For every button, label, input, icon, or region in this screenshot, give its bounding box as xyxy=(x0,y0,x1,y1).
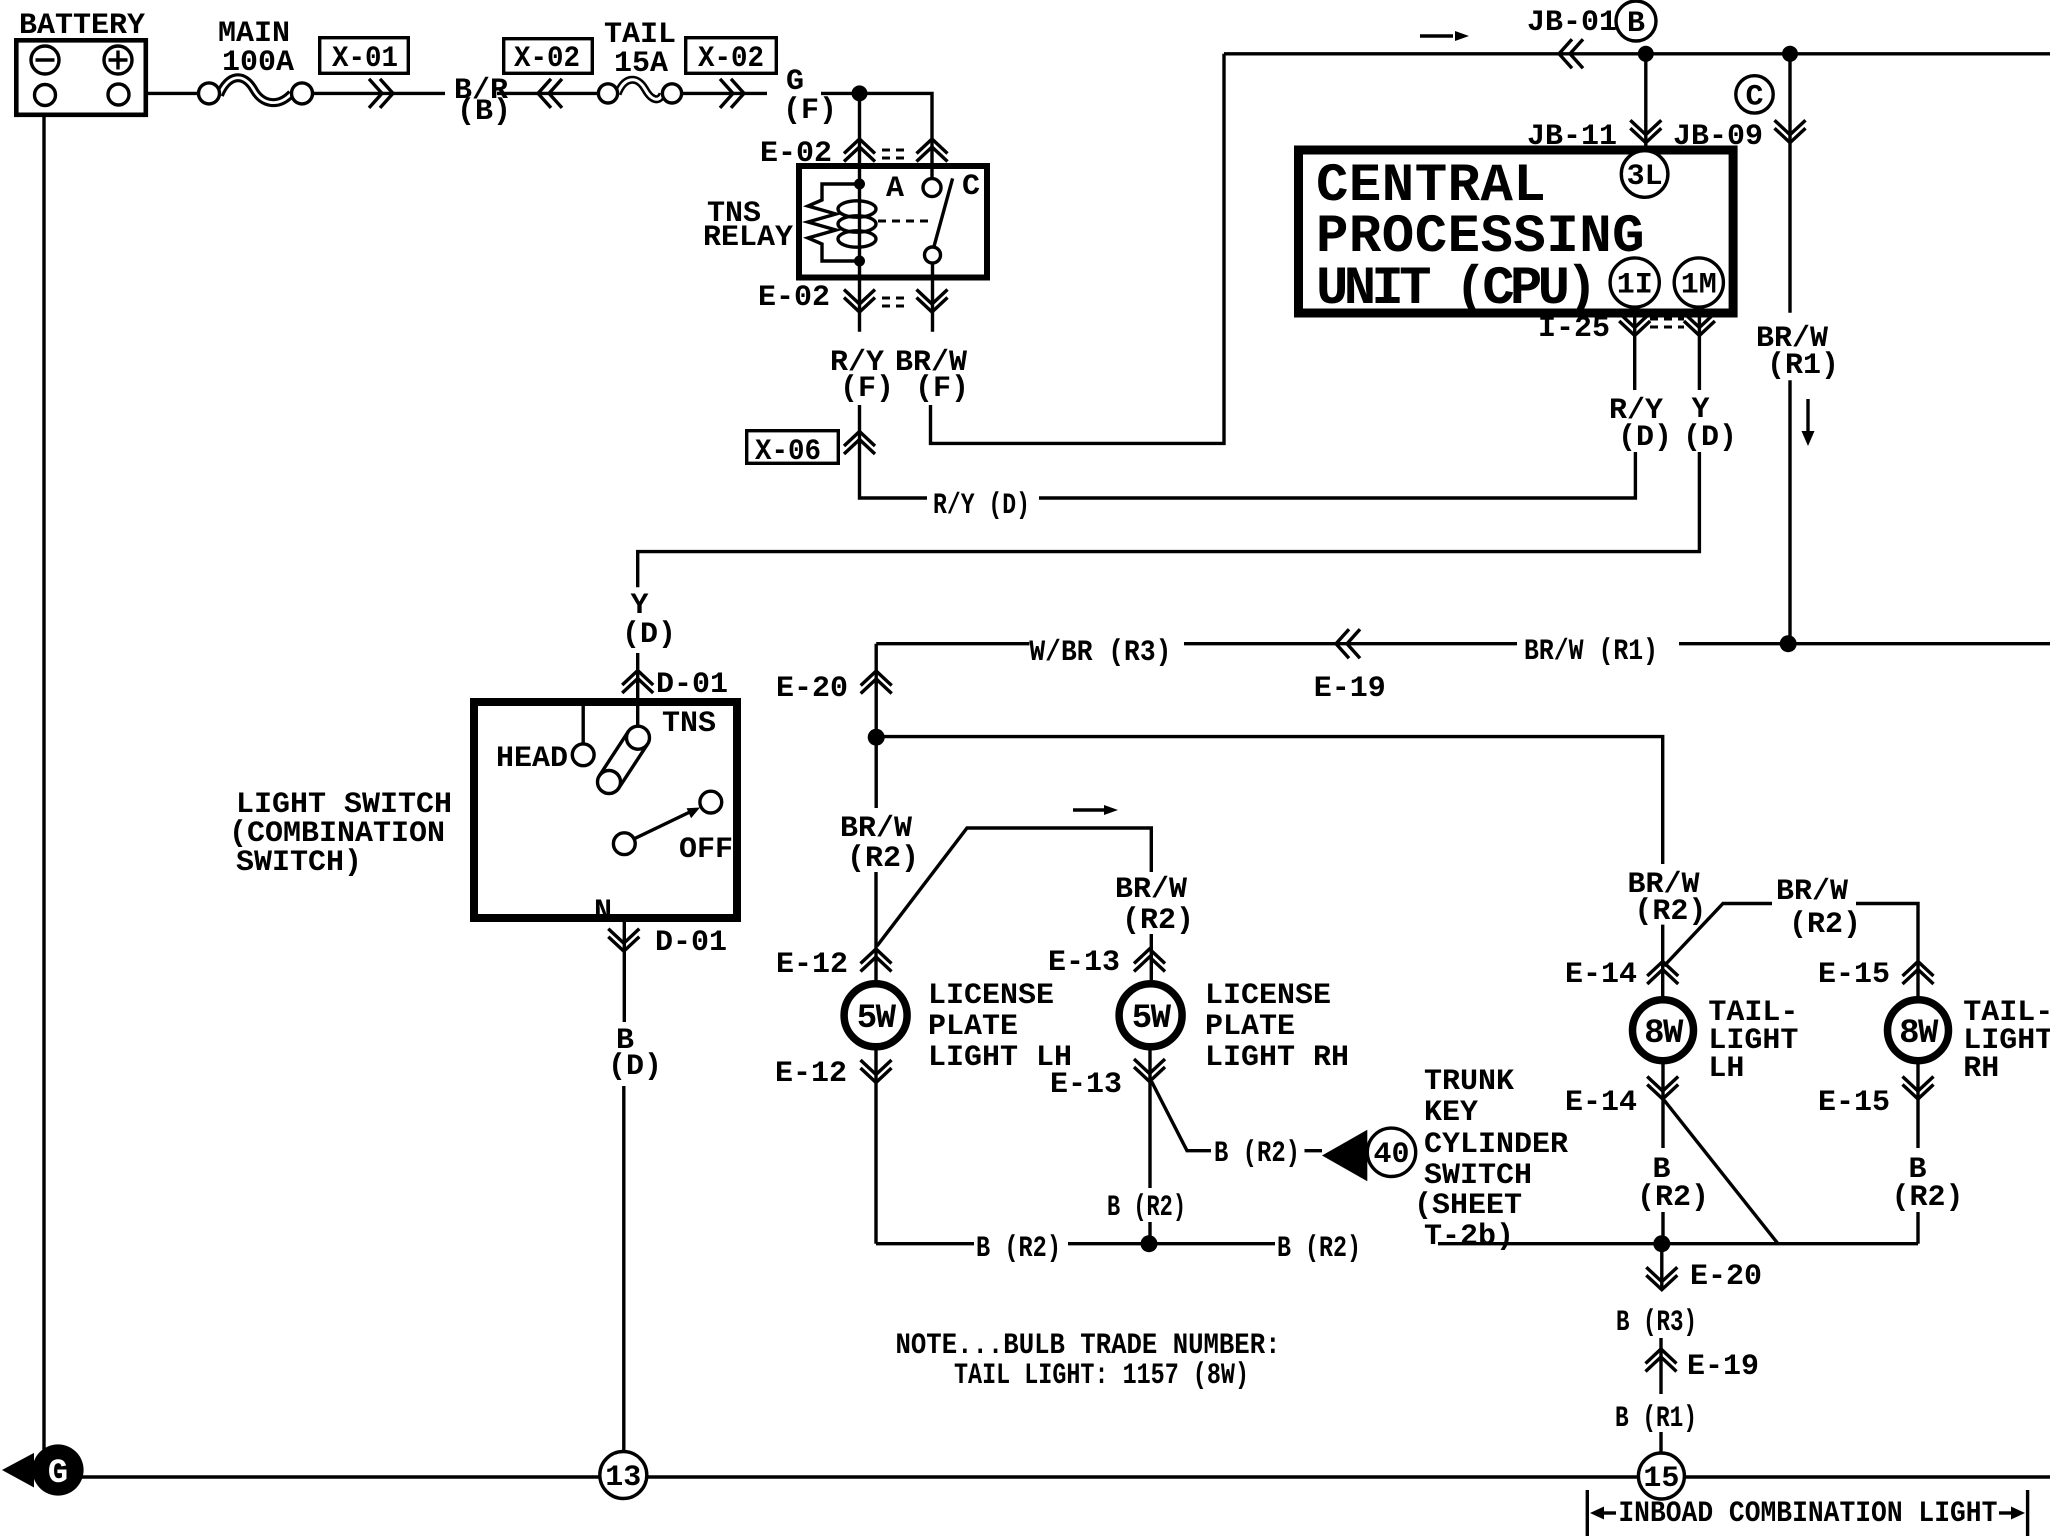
svg-text:LICENSE: LICENSE xyxy=(1205,979,1331,1013)
svg-text:RH: RH xyxy=(1963,1052,1999,1086)
svg-text:I-25: I-25 xyxy=(1538,312,1610,346)
svg-text:NOTE...BULB TRADE NUMBER:: NOTE...BULB TRADE NUMBER: xyxy=(896,1329,1281,1363)
svg-text:B (R3): B (R3) xyxy=(1616,1306,1697,1340)
battery xyxy=(16,40,146,115)
joint circle 40 xyxy=(1367,1128,1415,1176)
node relay coil bottom xyxy=(854,256,865,267)
svg-text:LICENSE: LICENSE xyxy=(928,979,1054,1013)
connector chevron X-06 xyxy=(844,432,875,455)
ground symbol G xyxy=(2,1444,84,1495)
svg-text:13: 13 xyxy=(605,1461,641,1495)
CPU pin 3L xyxy=(1621,151,1668,198)
wire battery B+ feed to TNS relay (B/R, G wire) xyxy=(129,93,932,179)
svg-text:E-12: E-12 xyxy=(775,1057,847,1091)
wire B (R2) ground bus xyxy=(876,1242,1918,1245)
connector chevron E-19 horizontal xyxy=(1336,629,1360,658)
svg-text:E-20: E-20 xyxy=(776,672,848,706)
svg-text:T-2b): T-2b) xyxy=(1424,1220,1514,1254)
svg-text:UNIT (CPU): UNIT (CPU) xyxy=(1316,259,1593,320)
joint circle B of JB-01 xyxy=(1616,1,1656,41)
node junction tail ground xyxy=(1653,1235,1670,1252)
relay switch blade xyxy=(934,178,953,246)
light switch HEAD terminal xyxy=(572,744,594,766)
relay contact lower terminal xyxy=(925,247,941,263)
svg-text:(D): (D) xyxy=(1683,421,1737,455)
svg-text:JB-11: JB-11 xyxy=(1527,120,1617,154)
relay coil xyxy=(838,201,876,247)
wire license plate light LH ground to B (R2) bus xyxy=(874,1050,877,1244)
svg-text:(R2): (R2) xyxy=(1122,904,1194,938)
svg-text:8W: 8W xyxy=(1644,1015,1684,1053)
svg-text:E-13: E-13 xyxy=(1050,1068,1122,1102)
svg-text:(B): (B) xyxy=(457,95,511,129)
node junction license feed xyxy=(868,729,885,746)
svg-text:B (R2): B (R2) xyxy=(976,1232,1061,1266)
connector chevron E-13 upper xyxy=(1134,949,1165,972)
svg-text:BR/W: BR/W xyxy=(1776,875,1848,909)
svg-text:B (R2): B (R2) xyxy=(1107,1191,1186,1225)
svg-text:X-01: X-01 xyxy=(332,42,398,76)
connector box X-02 (right) xyxy=(686,38,777,74)
wire light switch N pin B (D) down to joint 13 xyxy=(622,855,626,1452)
svg-text:BR/W (R1): BR/W (R1) xyxy=(1524,635,1658,669)
connector chevron E-20 lower xyxy=(1646,1267,1677,1290)
connector I-25 chevrons xyxy=(1619,313,1650,336)
svg-text:SWITCH: SWITCH xyxy=(1424,1159,1532,1193)
svg-text:E-15: E-15 xyxy=(1818,958,1890,992)
svg-text:R/Y (D): R/Y (D) xyxy=(933,489,1030,523)
wire lower BR/W (R1) / W/BR (R3) bus xyxy=(876,642,2050,645)
wire E-20 drop to license plate light LH xyxy=(874,644,878,981)
svg-text:(SHEET: (SHEET xyxy=(1414,1189,1522,1223)
svg-text:TRUNK: TRUNK xyxy=(1424,1065,1514,1099)
svg-text:E-19: E-19 xyxy=(1687,1350,1759,1384)
connector chevron E-19 vertical xyxy=(1646,1349,1677,1372)
svg-text:(R2): (R2) xyxy=(1789,908,1861,942)
lamp tail-light RH 8W xyxy=(1888,1000,1949,1061)
svg-text:D-01: D-01 xyxy=(656,668,728,702)
svg-text:(R1): (R1) xyxy=(1767,349,1839,383)
svg-text:RELAY: RELAY xyxy=(703,221,793,255)
connector chevron X-01 xyxy=(369,79,393,108)
node junction JB-11 tap xyxy=(1638,46,1654,62)
wire diagonal tail-light ground link xyxy=(1664,1100,1778,1244)
svg-text:(D): (D) xyxy=(608,1050,662,1084)
connector chevron E-12 lower xyxy=(861,1060,892,1083)
svg-text:(R2): (R2) xyxy=(1892,1181,1964,1215)
svg-text:W/BR (R3): W/BR (R3) xyxy=(1029,636,1171,670)
svg-text:C: C xyxy=(1745,81,1763,115)
CPU pin 1I xyxy=(1610,258,1659,307)
wire relay coil pin to R/Y (F) / X-06 / R/Y (D) run to CPU pin 1I xyxy=(860,261,1636,498)
node junction license ground xyxy=(1141,1235,1158,1252)
arrow direction marker license RH branch xyxy=(1073,808,1105,811)
svg-text:HEAD: HEAD xyxy=(496,742,568,776)
wire CPU pin 1M Y (D) run to light switch xyxy=(638,308,1700,726)
inboard combination light left tick xyxy=(1587,1490,1616,1536)
svg-text:JB-09: JB-09 xyxy=(1673,120,1763,154)
connector chevron X-02 right xyxy=(720,79,744,108)
svg-text:TAIL LIGHT: 1157 (8W): TAIL LIGHT: 1157 (8W) xyxy=(954,1359,1249,1393)
svg-text:(F): (F) xyxy=(915,372,969,406)
svg-text:15A: 15A xyxy=(614,47,668,81)
svg-text:(F): (F) xyxy=(783,94,837,128)
connector E-02 lower chevrons xyxy=(844,290,875,313)
svg-text:X-02: X-02 xyxy=(698,42,764,76)
connector chevron JB-11 xyxy=(1630,120,1661,143)
TNS relay box xyxy=(799,166,987,278)
svg-text:BATTERY: BATTERY xyxy=(19,9,145,43)
wire license plate light RH ground xyxy=(1148,1050,1151,1244)
light switch box xyxy=(474,702,737,918)
light switch moving blade with arrow xyxy=(634,808,700,840)
svg-text:INBOAD COMBINATION LIGHT: INBOAD COMBINATION LIGHT xyxy=(1618,1497,1997,1531)
svg-text:1I: 1I xyxy=(1617,269,1653,303)
wire BR/W (R2) feed to tail-light LH xyxy=(876,737,1662,997)
connector E-02 lower dashed link xyxy=(882,298,910,306)
svg-text:(F): (F) xyxy=(840,372,894,406)
connector chevron E-20 upper xyxy=(861,671,892,694)
wire branch BR/W (R2) to tail-light RH xyxy=(1664,904,1918,997)
svg-text:E-12: E-12 xyxy=(776,948,848,982)
node junction BR/W (R1) lower bus xyxy=(1780,635,1797,652)
trunk key cylinder switch arrow xyxy=(1322,1130,1367,1182)
svg-text:TNS: TNS xyxy=(662,707,716,741)
relay resistor xyxy=(808,184,860,261)
svg-text:BR/W: BR/W xyxy=(1115,873,1187,907)
lamp license plate light LH 5W xyxy=(844,984,907,1047)
joint circle 15 xyxy=(1638,1453,1684,1499)
arrow direction marker near JB-01 xyxy=(1420,34,1453,37)
svg-text:A: A xyxy=(886,172,904,206)
connector I-25 dashed link xyxy=(1650,319,1684,327)
light switch upper-right terminal xyxy=(700,791,722,813)
lamp license plate light RH 5W xyxy=(1119,984,1182,1047)
svg-text:C: C xyxy=(962,170,980,204)
inboard combination light right tick xyxy=(1999,1490,2028,1536)
connector chevron JB-01 xyxy=(1559,39,1583,68)
light switch OFF terminal xyxy=(613,833,635,855)
svg-text:E-20: E-20 xyxy=(1690,1260,1762,1294)
svg-text:E-19: E-19 xyxy=(1314,672,1386,706)
svg-text:E-14: E-14 xyxy=(1565,1086,1637,1120)
svg-text:40: 40 xyxy=(1373,1138,1409,1172)
svg-text:E-02: E-02 xyxy=(760,137,832,171)
svg-text:(R2): (R2) xyxy=(1634,895,1706,929)
wire JB-11 drop to CPU pin 3L xyxy=(1644,54,1647,151)
CPU pin 1M xyxy=(1674,258,1723,307)
light switch wire into box xyxy=(583,698,638,744)
connector chevron X-02 left xyxy=(538,79,562,108)
wire B (R3) / B (R1) drop to joint 15 xyxy=(1659,1244,1663,1453)
svg-text:CYLINDER: CYLINDER xyxy=(1424,1128,1568,1162)
svg-text:BR/W: BR/W xyxy=(840,812,912,846)
svg-text:LH: LH xyxy=(1708,1052,1744,1086)
lamp tail-light LH 8W xyxy=(1633,1000,1694,1061)
wire JB-09 / BR/W (R1) drop to lower bus xyxy=(1788,54,1791,644)
svg-text:E-13: E-13 xyxy=(1048,946,1120,980)
wire relay contact pin BR/W (F) up to junction block bus xyxy=(931,54,2050,444)
wire branch to license plate light RH xyxy=(877,828,1151,981)
svg-text:(R2): (R2) xyxy=(847,842,919,876)
svg-text:B: B xyxy=(1627,7,1645,41)
node relay coil top xyxy=(854,179,865,190)
svg-text:3L: 3L xyxy=(1627,160,1663,194)
svg-text:1M: 1M xyxy=(1681,269,1717,303)
svg-text:15: 15 xyxy=(1643,1462,1679,1496)
arrow direction marker BR/W (R1) xyxy=(1806,399,1809,434)
central processing unit (CPU) box xyxy=(1299,150,1734,313)
svg-text:E-14: E-14 xyxy=(1565,958,1637,992)
svg-text:8W: 8W xyxy=(1899,1015,1939,1053)
svg-text:(D): (D) xyxy=(622,618,676,652)
svg-text:(D): (D) xyxy=(1618,421,1672,455)
svg-text:100A: 100A xyxy=(222,46,294,80)
relay contact A terminal xyxy=(923,179,941,197)
connector box X-06 xyxy=(747,431,839,464)
relay actuator dashed line xyxy=(878,220,928,223)
joint circle C xyxy=(1736,76,1773,113)
connector E-02 upper chevrons xyxy=(844,139,875,162)
connector chevron E-15 lower xyxy=(1903,1077,1934,1100)
wire tail-light LH ground xyxy=(1661,1064,1664,1244)
wire ground bus bottom xyxy=(44,1475,2050,1478)
fuse MAIN 100A xyxy=(199,78,313,104)
svg-text:PLATE: PLATE xyxy=(1205,1010,1295,1044)
connector chevron JB-09 xyxy=(1775,120,1806,143)
connector chevron D-01 upper xyxy=(622,671,653,694)
node junction at G (F) xyxy=(852,85,868,101)
svg-text:JB-01: JB-01 xyxy=(1527,6,1617,40)
connector chevron E-14 upper xyxy=(1647,962,1678,985)
connector box X-01 xyxy=(320,38,409,74)
svg-text:B (R1): B (R1) xyxy=(1615,1402,1697,1436)
wire light switch HEAD stub xyxy=(582,698,585,744)
relay coil feed wire xyxy=(858,93,861,261)
svg-text:B (R2): B (R2) xyxy=(1277,1232,1361,1266)
connector chevron E-12 upper xyxy=(861,949,892,972)
wire tail-light RH ground xyxy=(1916,1064,1919,1244)
svg-text:KEY: KEY xyxy=(1424,1096,1478,1130)
svg-text:SWITCH): SWITCH) xyxy=(236,846,362,880)
svg-text:N: N xyxy=(594,895,612,929)
svg-text:G: G xyxy=(48,1455,68,1493)
svg-text:5W: 5W xyxy=(857,1000,897,1038)
svg-text:PLATE: PLATE xyxy=(928,1010,1018,1044)
wire battery ground (left side down) xyxy=(42,105,45,1477)
svg-text:OFF: OFF xyxy=(679,833,733,867)
light switch TNS knob capsule xyxy=(598,726,650,793)
svg-text:D-01: D-01 xyxy=(655,926,727,960)
svg-text:E-15: E-15 xyxy=(1818,1086,1890,1120)
wire branch to trunk key cylinder switch xyxy=(1152,1082,1322,1151)
connector chevron E-15 upper xyxy=(1903,962,1934,985)
svg-text:5W: 5W xyxy=(1132,1000,1172,1038)
svg-text:E-02: E-02 xyxy=(758,281,830,315)
joint circle 13 xyxy=(600,1452,647,1499)
connector chevron D-01 lower xyxy=(608,929,639,952)
svg-text:(R2): (R2) xyxy=(1637,1181,1709,1215)
svg-text:B (R2): B (R2) xyxy=(1214,1137,1300,1171)
svg-text:X-06: X-06 xyxy=(755,435,821,469)
fuse TAIL 15A xyxy=(598,80,681,103)
connector chevron E-13 lower xyxy=(1134,1059,1165,1082)
node junction JB-09 tap xyxy=(1782,46,1798,62)
svg-text:X-02: X-02 xyxy=(514,42,580,76)
svg-text:LIGHT RH: LIGHT RH xyxy=(1205,1041,1349,1075)
connector box X-02 (left) xyxy=(504,39,593,74)
connector E-02 upper dashed link xyxy=(882,150,910,158)
connector chevron E-14 lower xyxy=(1647,1077,1678,1100)
